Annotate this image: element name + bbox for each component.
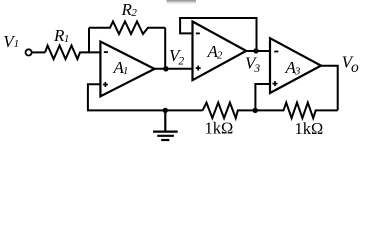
wire A3 output Vo and down to feedback resistor [320,66,338,111]
resistor 1k left [203,103,255,119]
junction node V2 [163,66,168,71]
wire A1 non-inverting input to ground rail [88,84,101,110]
A3 inverting input marker [274,51,278,53]
resistor R2 [89,21,165,34]
junction ground node [163,108,168,113]
wire A3 non-inverting input to feedback node [255,84,270,110]
page artifact grey bar [167,0,197,4]
A2 non-inverting input marker [196,66,201,71]
resistor 1k right [255,103,338,119]
ground symbol [153,110,178,140]
ground rail wire [87,109,203,111]
svg-text:1kΩ: 1kΩ [295,119,324,138]
A3 non-inverting input marker [273,81,278,86]
wire feedback tap up to R2 [88,28,90,54]
op-amp A2 [193,22,247,81]
svg-text:1kΩ: 1kΩ [205,119,234,138]
A1 inverting input marker [104,51,108,53]
junction feedback node on rail [253,108,258,113]
resistor R1 [45,46,100,60]
wire R2 down to node V2 [164,28,166,69]
wire A2 feedback loop [180,18,256,51]
wire input to R1 [32,51,45,53]
input terminal circle [26,49,32,55]
op-amp A1 [100,42,154,97]
A1 non-inverting input marker [103,82,108,87]
wire A1 output to A2 non-inverting input [153,68,193,70]
junction node V3 [253,48,258,53]
A2 inverting input marker [196,32,200,34]
wire A2 output to A3 inverting input [245,50,271,52]
op-amp A3 [270,38,321,93]
